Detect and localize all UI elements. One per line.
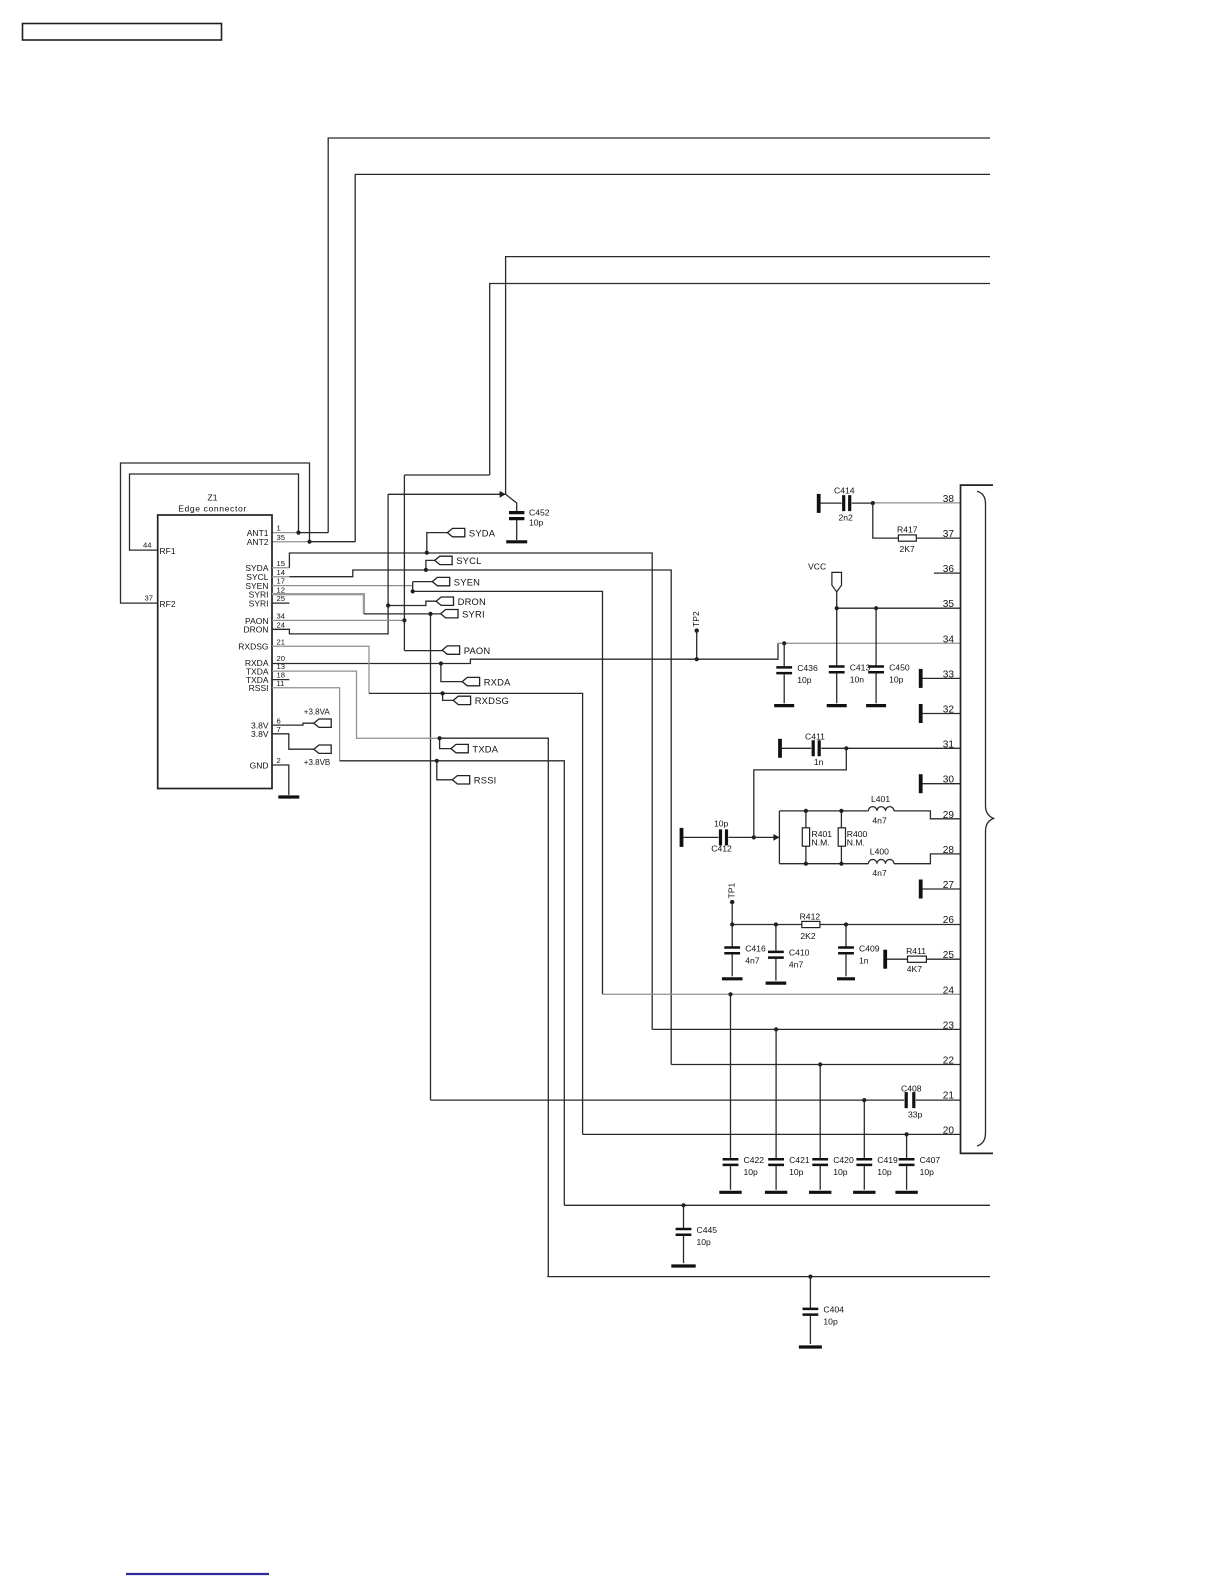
capacitor C404 [809,1277,811,1309]
svg-text:21: 21 [943,1091,955,1102]
svg-text:R412: R412 [800,911,821,921]
svg-text:Z1: Z1 [207,493,217,503]
ground C404 [799,1345,822,1348]
svg-text:26: 26 [943,915,955,926]
capacitor C414 plates [844,495,850,511]
wire TXDA net [272,671,440,738]
Z1 pin name and number labels [143,524,285,771]
svg-text:+3.8VA: +3.8VA [304,708,331,717]
node RXDSG flag [453,695,509,706]
test point TP1 [727,883,737,925]
svg-text:C407: C407 [920,1155,941,1165]
terminator bar pin 33 [919,669,923,688]
svg-text:11: 11 [277,679,285,688]
svg-text:TP2: TP2 [691,611,701,627]
svg-text:RXDSG: RXDSG [238,642,268,652]
wire VCC / pin35 net [836,592,838,666]
svg-text:37: 37 [145,593,153,602]
node SYDA flag [447,527,495,538]
ground C419 [853,1191,875,1194]
svg-text:4n7: 4n7 [872,815,887,825]
node DRON flag [436,596,486,607]
wire RXDSG net [272,646,369,693]
resistor R412 body [802,921,820,927]
svg-text:C445: C445 [697,1225,718,1235]
svg-text:32: 32 [943,705,955,716]
svg-text:37: 37 [943,529,955,540]
terminator bar pin 32 [919,704,923,723]
svg-text:RSSI: RSSI [474,775,497,786]
svg-text:27: 27 [943,880,955,891]
edge connector Z1 [158,493,272,789]
wire RF2 to ANT2 loop [121,463,310,603]
svg-text:22: 22 [943,1056,955,1067]
svg-text:10p: 10p [744,1167,759,1177]
capacitor C410 [775,925,777,952]
wire RSSI net [272,688,340,761]
inductor L400 [868,846,894,878]
capacitor C420 [819,1065,821,1159]
capacitor C416 plates [724,943,766,965]
svg-text:N.M.: N.M. [812,838,830,848]
svg-text:VCC: VCC [808,562,826,572]
svg-text:10p: 10p [889,674,904,684]
capacitor C407 [906,1134,908,1158]
svg-text:25: 25 [943,950,955,961]
svg-text:C411: C411 [805,732,825,742]
svg-text:30: 30 [943,775,955,786]
svg-text:23: 23 [943,1020,955,1031]
capacitor C421 [775,1029,777,1158]
svg-text:SYRI: SYRI [249,599,269,609]
ground C452 [506,540,527,543]
ground C413 [827,704,847,707]
svg-text:C420: C420 [833,1155,854,1165]
IC U1 pin numbers [943,494,955,1137]
svg-text:4K7: 4K7 [907,964,923,974]
inductor L401 [868,794,894,825]
terminator bar C412 left [680,828,684,847]
wire pin22 net [671,1064,960,1066]
svg-text:10p: 10p [833,1167,848,1177]
svg-text:24: 24 [943,985,955,996]
resistor R401 body [802,828,809,846]
svg-text:35: 35 [943,599,955,610]
svg-text:10p: 10p [789,1167,804,1177]
svg-text:TP1: TP1 [727,883,737,899]
svg-text:C421: C421 [789,1155,810,1165]
svg-text:RF1: RF1 [160,546,176,556]
capacitor C409 plates [838,943,880,965]
capacitor C404 plates [803,1305,845,1327]
ground C421 [765,1191,787,1194]
wire SYDA net [272,567,289,569]
resistor R417 body [898,535,916,541]
capacitor C436 [776,663,818,685]
svg-text:15: 15 [277,559,285,568]
svg-text:C416: C416 [745,943,766,953]
svg-text:C414: C414 [834,486,855,496]
svg-text:RXDSG: RXDSG [475,695,509,706]
capacitor C413 [829,662,871,684]
svg-text:29: 29 [943,810,955,821]
terminator bar C411 left [778,739,782,758]
ground C410 [766,981,787,984]
svg-text:C436: C436 [797,663,818,673]
svg-text:SYDA: SYDA [469,527,496,538]
svg-text:28: 28 [943,845,955,856]
capacitor C410 plates [768,948,810,970]
svg-text:38: 38 [943,494,955,505]
wire C411 to C412 node [754,748,847,837]
svg-text:12: 12 [277,585,285,594]
IC U1 inner brace [977,491,994,1146]
svg-text:4n7: 4n7 [872,868,887,878]
ground C450 [866,704,886,707]
svg-text:L401: L401 [871,794,890,804]
resistor R400 [840,811,842,864]
capacitor C422 [730,994,732,1158]
svg-text:10p: 10p [697,1237,712,1247]
wire bottom net A (RSSI row) [564,1204,990,1206]
capacitor C416 [731,925,733,947]
svg-text:C422: C422 [744,1155,765,1165]
ground C445 [671,1264,695,1267]
wire DRON net [272,494,506,634]
wire pin36 stub [934,572,961,574]
svg-text:36: 36 [943,564,955,575]
wire ANT1 top frame net [328,138,990,533]
svg-text:20: 20 [943,1126,955,1137]
resistor R411 body [908,956,927,962]
svg-text:N.M.: N.M. [847,838,865,848]
test point TP2 [691,611,701,659]
svg-text:DRON: DRON [243,625,268,635]
svg-text:1n: 1n [814,757,824,767]
svg-text:25: 25 [277,594,285,603]
wire SYRI net [272,594,364,614]
ground C420 [809,1191,831,1194]
wire pin21 net [431,1099,961,1101]
svg-text:34: 34 [277,612,285,621]
svg-text:R417: R417 [897,524,918,534]
svg-text:SYCL: SYCL [456,555,481,566]
terminator bar pin 30 [919,774,923,793]
svg-text:ANT2: ANT2 [247,537,269,547]
capacitor C445 [683,1205,685,1228]
terminator bar C414 left [817,494,821,513]
wire resonator rails [779,811,960,864]
svg-text:31: 31 [943,740,955,751]
svg-text:C412: C412 [711,844,732,854]
svg-text:33p: 33p [908,1110,923,1120]
wire pin34 net (gray) [783,643,785,666]
svg-text:2K7: 2K7 [900,544,916,554]
svg-text:L400: L400 [870,846,889,856]
power flag +3.8VA [272,723,314,725]
power VCC [808,562,842,592]
capacitor C419 plates [856,1155,898,1177]
svg-text:2n2: 2n2 [839,513,854,523]
svg-text:3.8V: 3.8V [251,729,269,739]
capacitor C407 plates [899,1155,941,1177]
svg-text:R411: R411 [906,946,926,956]
svg-text:33: 33 [943,669,955,680]
svg-text:TXDA: TXDA [472,743,498,754]
svg-text:4n7: 4n7 [745,955,760,965]
svg-text:1n: 1n [859,955,869,965]
capacitor C421 plates [768,1155,810,1177]
node +3.8VB flag [314,745,331,753]
wire bottom net B (TXDA row) [547,1276,990,1278]
svg-text:34: 34 [943,634,955,645]
ground C407 [895,1191,917,1194]
ground C416 [722,977,743,980]
svg-text:C410: C410 [789,948,810,958]
title block box (top-left) [23,24,222,41]
capacitor C452 [506,494,517,540]
svg-text:C409: C409 [859,943,880,953]
svg-text:C408: C408 [901,1083,922,1093]
svg-text:10p: 10p [529,518,544,528]
terminator bar R411 left [883,950,887,969]
svg-text:DRON: DRON [458,596,486,607]
wire ANT2 pin stub [272,541,310,543]
capacitor C420 plates [812,1155,854,1177]
node SYCL flag [435,555,482,566]
wire PAON top frame net [404,284,990,476]
svg-text:PAON: PAON [464,645,491,656]
svg-text:7: 7 [277,725,281,734]
wire SYCL net [272,576,289,578]
wire RXDA net [272,643,778,663]
svg-text:C404: C404 [823,1305,844,1315]
ground Z1 GND [278,795,299,798]
svg-text:21: 21 [277,637,285,646]
capacitor C409 [845,925,847,947]
wire ANT2 top frame net [355,174,990,541]
svg-text:C419: C419 [877,1155,898,1165]
svg-text:SYEN: SYEN [454,576,480,587]
wire pin20 net [583,1133,961,1135]
svg-text:RSSI: RSSI [249,683,269,693]
power flag +3.8VB [272,734,314,749]
terminator bar pin 27 [919,880,923,899]
resistor R400 body [838,828,845,846]
wire pin24 net (gray segment) [603,993,961,995]
svg-text:C452: C452 [529,508,550,518]
svg-text:10p: 10p [797,675,812,685]
node SYRI flag [441,608,485,619]
capacitor C412 plates [721,829,727,845]
wire RF1 to ANT1 loop [130,474,299,550]
svg-text:RF2: RF2 [160,599,176,609]
ground C436 [774,704,794,707]
svg-text:10p: 10p [877,1167,892,1177]
wire pin26 net [732,924,960,926]
svg-text:35: 35 [277,533,285,542]
wire pin38 net [873,502,961,504]
svg-text:RXDA: RXDA [484,676,511,687]
svg-text:10n: 10n [850,674,865,684]
svg-text:1: 1 [277,524,281,533]
svg-text:2: 2 [277,756,281,765]
ground C409 [837,977,855,980]
svg-text:2K2: 2K2 [800,931,816,941]
capacitor C411 plates [813,740,819,756]
node PAON flag [442,645,490,656]
hyperlink underline (bottom-left) [126,1573,269,1575]
node RXDA flag [462,676,511,687]
svg-text:10p: 10p [920,1167,935,1177]
capacitor C450 [868,662,910,684]
wire pin23 net [652,1028,960,1030]
svg-text:4n7: 4n7 [789,960,804,970]
svg-text:+3.8VB: +3.8VB [304,758,330,767]
wire TXDA pin18 stub [272,679,289,681]
capacitor C422 plates [723,1155,765,1177]
wire SYEN net [272,585,413,587]
ground GND pin2 [272,765,289,795]
node RSSI flag [452,775,496,786]
IC U1 boundary [961,485,994,1153]
svg-text:SYRI: SYRI [462,608,485,619]
node TXDA flag [451,743,499,754]
node SYEN flag [432,576,480,587]
resistor R401 [805,811,807,864]
node +3.8VA flag [314,719,331,727]
svg-text:GND: GND [250,760,269,770]
svg-text:14: 14 [277,568,285,577]
svg-text:44: 44 [143,541,151,550]
capacitor C419 [863,1100,865,1159]
wire ANT1 pin stub [272,532,299,534]
svg-text:10p: 10p [823,1317,838,1327]
ground C422 [719,1191,741,1194]
capacitor C445 plates [676,1225,718,1247]
wire PAON net [272,619,404,621]
svg-text:Edge connector: Edge connector [178,504,247,514]
wire SYRI pin25 stub [272,602,289,604]
svg-text:C413: C413 [850,662,871,672]
svg-text:10p: 10p [714,818,729,828]
wire DRON top frame net [506,257,990,495]
capacitor C408 plates [906,1092,914,1108]
svg-text:C450: C450 [889,662,910,672]
svg-text:24: 24 [277,620,285,629]
